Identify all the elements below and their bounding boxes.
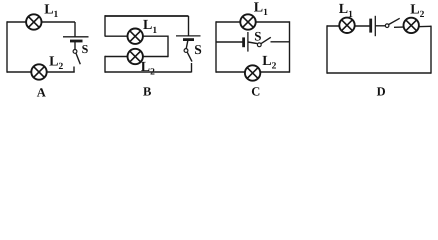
svg-text:L1: L1: [254, 1, 268, 19]
lamp L2 (B): [128, 49, 143, 64]
battery (B): long plate: [176, 35, 201, 37]
circuit D: wire top left segment: [327, 25, 370, 27]
svg-text:S: S: [82, 42, 89, 56]
switch S (B): lever: [187, 52, 192, 61]
battery (A): long plate: [63, 36, 89, 38]
circuit B: wire battery to switch: [186, 40, 188, 49]
svg-text:L1: L1: [44, 2, 58, 20]
circuit B: branch L1: [105, 35, 168, 37]
lamp L1 (C): [240, 14, 255, 29]
svg-text:S: S: [194, 42, 202, 57]
circuit D: wire top middle segment (battery to switch): [375, 25, 385, 27]
circuit B: inner right vertical: [167, 36, 169, 58]
svg-text:C: C: [251, 85, 260, 99]
svg-text:D: D: [377, 85, 386, 99]
circuit C: wire right: [289, 21, 291, 72]
circuit B: wire top: [105, 15, 189, 17]
battery (A): short plate: [70, 40, 83, 43]
svg-text:L2: L2: [141, 60, 155, 78]
circuit D: wire top right segment: [394, 26, 431, 27]
circuit C: wire battery to switch: [248, 42, 257, 44]
circuit C: wire top: [216, 21, 290, 23]
battery (D): long plate: [374, 16, 376, 36]
circuit B: wire bottom: [105, 71, 192, 73]
circuit B: branch L2: [105, 56, 168, 58]
switch S (C): pivot circle: [257, 43, 261, 47]
lamp L1 (B): [128, 29, 143, 44]
switch S (B): fixed contact stub: [191, 63, 193, 72]
svg-text:L2: L2: [49, 54, 63, 72]
svg-text:A: A: [37, 85, 46, 99]
circuit B: wire left upper: [104, 15, 106, 36]
switch S (A): fixed contact stub: [73, 67, 75, 73]
switch S (C): lever: [261, 37, 271, 43]
switch S (A): lever: [76, 53, 80, 64]
battery (D): short plate: [369, 19, 372, 33]
svg-text:L2: L2: [410, 2, 424, 20]
circuit C: middle branch left wire: [216, 41, 243, 43]
battery (B): short plate: [183, 38, 194, 41]
circuit C: wire bottom: [216, 71, 290, 73]
circuit A: wire left: [6, 21, 8, 72]
lamp L2 (A): [31, 64, 46, 79]
circuit A: wire right upper: [74, 22, 76, 37]
svg-text:L1: L1: [143, 18, 157, 36]
switch S (B): pivot circle: [184, 49, 188, 53]
battery (C): short plate: [242, 37, 245, 47]
circuit D: wire bottom: [327, 72, 431, 74]
circuit B: wire left lower: [104, 56, 106, 73]
lamp L2 (D): [404, 18, 419, 33]
circuit A: wire top: [7, 21, 75, 23]
switch (D): lever: [389, 18, 400, 24]
circuit D: wire left: [326, 25, 328, 73]
battery (C): long plate: [247, 32, 249, 52]
lamp L1 (A): [26, 14, 41, 29]
circuit A: wire bottom: [7, 71, 75, 73]
lamp L2 (C): [245, 65, 260, 80]
circuit C: wire left: [215, 21, 217, 72]
switch (D): pivot circle: [385, 24, 389, 28]
lamp L1 (D): [339, 18, 354, 33]
switch S (A): pivot circle: [73, 50, 77, 54]
circuit D: wire right: [430, 26, 432, 74]
circuit C: middle branch right wire: [271, 41, 290, 43]
svg-text:B: B: [143, 85, 151, 99]
svg-text:L1: L1: [339, 2, 353, 20]
circuit B: wire right upper: [188, 16, 190, 36]
svg-text:S: S: [254, 29, 261, 44]
circuit A: wire battery to switch: [74, 41, 76, 49]
svg-text:L2: L2: [262, 54, 276, 72]
